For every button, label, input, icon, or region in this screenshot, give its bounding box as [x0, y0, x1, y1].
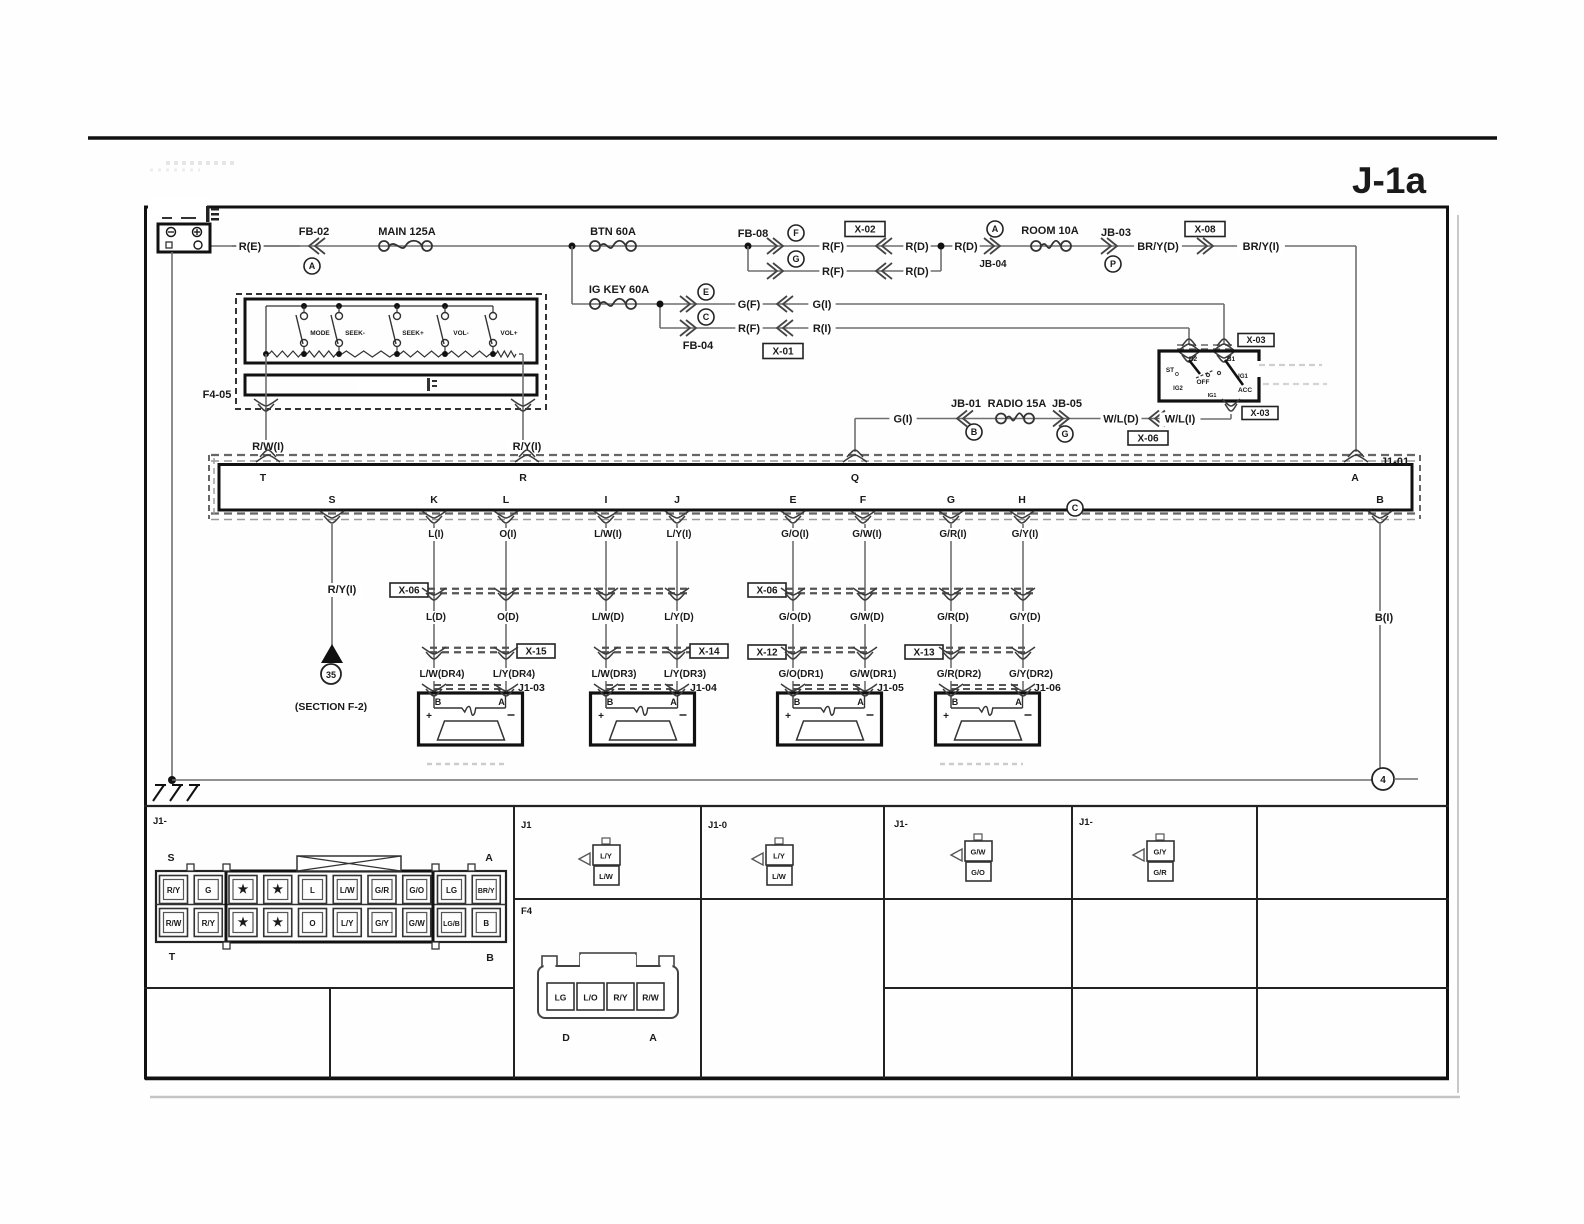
- svg-text:B: B: [435, 697, 442, 707]
- svg-text:G/O: G/O: [971, 868, 985, 877]
- svg-text:B: B: [486, 952, 494, 964]
- svg-text:R(F): R(F): [822, 266, 844, 278]
- svg-text:T: T: [260, 472, 267, 484]
- svg-text:R(F): R(F): [822, 241, 844, 253]
- svg-text:G: G: [205, 886, 211, 895]
- svg-text:B: B: [794, 697, 801, 707]
- svg-text:ST: ST: [1166, 367, 1174, 374]
- svg-text:L: L: [310, 886, 315, 895]
- svg-text:I: I: [605, 494, 608, 506]
- svg-text:MODE: MODE: [310, 330, 330, 337]
- svg-text:F4: F4: [521, 906, 533, 917]
- svg-text:G/W(D): G/W(D): [850, 612, 884, 623]
- svg-text:IG1: IG1: [1208, 393, 1217, 399]
- svg-text:G(I): G(I): [894, 414, 913, 426]
- svg-text:L(D): L(D): [426, 612, 446, 623]
- svg-text:O: O: [309, 919, 315, 928]
- svg-text:X-03: X-03: [1250, 408, 1269, 418]
- svg-text:C: C: [703, 312, 710, 322]
- svg-text:R: R: [519, 472, 527, 484]
- svg-text:T: T: [169, 951, 176, 963]
- svg-text:B: B: [971, 427, 978, 437]
- svg-text:G/Y: G/Y: [375, 919, 389, 928]
- svg-text:B(I): B(I): [1375, 612, 1394, 624]
- svg-text:+: +: [785, 711, 791, 722]
- svg-text:X-02: X-02: [854, 225, 876, 236]
- svg-text:BR/Y(I): BR/Y(I): [1243, 241, 1280, 253]
- svg-text:JB-01: JB-01: [951, 398, 981, 410]
- svg-text:(SECTION F-2): (SECTION F-2): [295, 701, 367, 713]
- svg-text:A: A: [1015, 697, 1022, 707]
- svg-text:X-03: X-03: [1246, 335, 1265, 345]
- svg-text:X-06: X-06: [398, 586, 420, 597]
- svg-text:H: H: [1018, 494, 1026, 506]
- svg-text:F: F: [860, 494, 867, 506]
- svg-text:+: +: [598, 711, 604, 722]
- svg-text:MAIN 125A: MAIN 125A: [378, 226, 436, 238]
- svg-text:L: L: [503, 494, 510, 506]
- svg-text:J1-04: J1-04: [690, 682, 717, 694]
- svg-text:L/Y: L/Y: [341, 919, 354, 928]
- svg-text:K: K: [430, 494, 438, 506]
- svg-text:C: C: [1072, 503, 1079, 513]
- svg-text:L/Y(DR4): L/Y(DR4): [493, 669, 535, 680]
- svg-text:BR/Y(D): BR/Y(D): [1137, 241, 1179, 253]
- svg-text:S: S: [167, 852, 174, 864]
- svg-text:R(I): R(I): [813, 323, 832, 335]
- svg-text:L/W: L/W: [599, 872, 614, 881]
- svg-text:R/Y(I): R/Y(I): [513, 441, 542, 453]
- svg-text:J1-03: J1-03: [518, 682, 545, 694]
- svg-text:A: A: [1351, 472, 1359, 484]
- svg-text:LG/B: LG/B: [443, 921, 460, 928]
- svg-text:A: A: [670, 697, 677, 707]
- svg-text:G/Y(D): G/Y(D): [1009, 612, 1040, 623]
- svg-text:W/L(I): W/L(I): [1165, 414, 1196, 426]
- svg-text:J1-: J1-: [894, 819, 908, 830]
- svg-text:★: ★: [238, 882, 249, 896]
- svg-text:35: 35: [326, 670, 336, 680]
- svg-text:G/R(D): G/R(D): [937, 612, 969, 623]
- svg-text:BTN 60A: BTN 60A: [590, 226, 636, 238]
- svg-text:G/O(DR1): G/O(DR1): [779, 669, 824, 680]
- svg-text:D: D: [562, 1032, 570, 1044]
- svg-text:Q: Q: [851, 472, 859, 484]
- svg-text:★: ★: [272, 915, 283, 929]
- svg-text:G/W: G/W: [409, 919, 425, 928]
- svg-text:G/O(D): G/O(D): [779, 612, 811, 623]
- svg-text:S: S: [328, 494, 335, 506]
- svg-text:R/W(I): R/W(I): [252, 441, 284, 453]
- svg-text:G/R(I): G/R(I): [939, 529, 966, 540]
- svg-text:G/R(DR2): G/R(DR2): [937, 669, 981, 680]
- svg-text:R(D): R(D): [905, 266, 929, 278]
- svg-text:G(I): G(I): [813, 299, 832, 311]
- svg-text:G/W: G/W: [971, 848, 987, 857]
- svg-text:IG2: IG2: [1173, 386, 1183, 392]
- svg-text:X-15: X-15: [525, 647, 547, 658]
- svg-text:+: +: [426, 711, 432, 722]
- svg-text:R(E): R(E): [239, 241, 262, 253]
- svg-text:J1-05: J1-05: [877, 682, 904, 694]
- svg-text:BR/Y: BR/Y: [478, 888, 495, 895]
- svg-text:G/Y: G/Y: [1154, 848, 1167, 857]
- svg-text:B: B: [952, 697, 959, 707]
- svg-text:ROOM 10A: ROOM 10A: [1021, 225, 1079, 237]
- svg-text:RADIO 15A: RADIO 15A: [988, 398, 1047, 410]
- svg-text:E: E: [789, 494, 796, 506]
- svg-text:LG: LG: [446, 886, 457, 895]
- svg-text:G/Y(I): G/Y(I): [1012, 529, 1039, 540]
- svg-text:L/Y: L/Y: [600, 852, 612, 861]
- svg-text:A: A: [649, 1032, 657, 1044]
- svg-text:J1-0: J1-0: [708, 820, 727, 831]
- svg-text:L/O: L/O: [583, 993, 598, 1003]
- svg-text:L/Y(D): L/Y(D): [664, 612, 693, 623]
- svg-text:L/W(DR4): L/W(DR4): [420, 669, 465, 680]
- svg-text:O: O: [1175, 372, 1179, 378]
- svg-text:G/W(DR1): G/W(DR1): [850, 669, 897, 680]
- svg-text:SEEK-: SEEK-: [345, 330, 365, 337]
- svg-text:L/W(I): L/W(I): [594, 529, 622, 540]
- svg-text:A: A: [309, 261, 316, 271]
- svg-text:G/Y(DR2): G/Y(DR2): [1009, 669, 1053, 680]
- svg-text:★: ★: [272, 882, 283, 896]
- svg-text:JB-03: JB-03: [1101, 227, 1131, 239]
- svg-text:R/Y(I): R/Y(I): [328, 584, 357, 596]
- svg-text:R/W: R/W: [166, 919, 182, 928]
- svg-text:R(D): R(D): [954, 241, 978, 253]
- svg-text:X-06: X-06: [1137, 434, 1159, 445]
- svg-text:JB-05: JB-05: [1052, 398, 1082, 410]
- svg-text:JB-04: JB-04: [979, 259, 1007, 270]
- svg-text:O(D): O(D): [497, 612, 519, 623]
- svg-text:E: E: [703, 287, 709, 297]
- svg-text:J-1a: J-1a: [1352, 160, 1426, 201]
- svg-text:R/W: R/W: [642, 993, 660, 1003]
- svg-text:G: G: [947, 494, 955, 506]
- svg-text:R/Y: R/Y: [167, 886, 181, 895]
- svg-text:R(F): R(F): [738, 323, 760, 335]
- svg-text:J: J: [674, 494, 680, 506]
- svg-text:B: B: [607, 697, 614, 707]
- svg-text:G/W(I): G/W(I): [852, 529, 881, 540]
- svg-text:X-01: X-01: [772, 347, 794, 358]
- svg-text:G/R: G/R: [375, 886, 389, 895]
- svg-text:O(I): O(I): [499, 529, 516, 540]
- svg-text:L/Y: L/Y: [773, 852, 785, 861]
- svg-text:L/W: L/W: [772, 872, 787, 881]
- svg-text:J1-: J1-: [1079, 817, 1093, 828]
- svg-text:ACC: ACC: [1238, 387, 1252, 394]
- svg-text:B: B: [1376, 494, 1384, 506]
- svg-text:J1: J1: [521, 820, 532, 831]
- svg-text:L/W(D): L/W(D): [592, 612, 624, 623]
- svg-text:A: A: [857, 697, 864, 707]
- svg-text:F: F: [793, 228, 799, 238]
- svg-text:LG: LG: [555, 993, 567, 1003]
- svg-text:★: ★: [238, 915, 249, 929]
- svg-text:L/W: L/W: [340, 886, 355, 895]
- svg-text:A: A: [498, 697, 505, 707]
- svg-text:R/Y: R/Y: [613, 993, 628, 1003]
- svg-text:VOL+: VOL+: [500, 330, 517, 337]
- svg-text:X-13: X-13: [913, 648, 935, 659]
- svg-text:VOL-: VOL-: [453, 330, 469, 337]
- svg-text:L(I): L(I): [428, 529, 444, 540]
- svg-text:X-14: X-14: [698, 647, 720, 658]
- svg-text:X-06: X-06: [756, 586, 778, 597]
- svg-text:G/O(I): G/O(I): [781, 529, 809, 540]
- svg-text:FB-02: FB-02: [299, 226, 330, 238]
- svg-text:A: A: [485, 852, 493, 864]
- svg-text:G/R: G/R: [1153, 868, 1167, 877]
- svg-text:J1-06: J1-06: [1034, 682, 1061, 694]
- svg-text:B: B: [483, 919, 489, 928]
- svg-text:W/L(D): W/L(D): [1103, 414, 1139, 426]
- svg-text:R/Y: R/Y: [202, 919, 216, 928]
- svg-text:F4-05: F4-05: [203, 389, 232, 401]
- svg-text:G(F): G(F): [738, 299, 761, 311]
- svg-text:R(D): R(D): [905, 241, 929, 253]
- svg-text:SEEK+: SEEK+: [402, 330, 424, 337]
- svg-text:L/Y(DR3): L/Y(DR3): [664, 669, 706, 680]
- svg-text:J1-01: J1-01: [1381, 456, 1409, 468]
- svg-text:J1-: J1-: [153, 816, 167, 827]
- svg-text:G/O: G/O: [409, 886, 424, 895]
- svg-text:IG KEY 60A: IG KEY 60A: [589, 284, 649, 296]
- svg-text:L/W(DR3): L/W(DR3): [592, 669, 637, 680]
- svg-text:G: G: [1061, 429, 1068, 439]
- svg-text:+: +: [943, 711, 949, 722]
- svg-text:FB-08: FB-08: [738, 228, 769, 240]
- svg-text:G: G: [792, 254, 799, 264]
- svg-text:B1: B1: [1227, 356, 1236, 363]
- svg-text:A: A: [992, 224, 999, 234]
- svg-text:4: 4: [1380, 775, 1386, 786]
- svg-text:P: P: [1110, 259, 1116, 269]
- svg-text:OFF: OFF: [1197, 379, 1210, 386]
- svg-text:L/Y(I): L/Y(I): [667, 529, 692, 540]
- svg-text:X-08: X-08: [1194, 225, 1216, 236]
- svg-text:FB-04: FB-04: [683, 340, 714, 352]
- svg-text:X-12: X-12: [756, 648, 778, 659]
